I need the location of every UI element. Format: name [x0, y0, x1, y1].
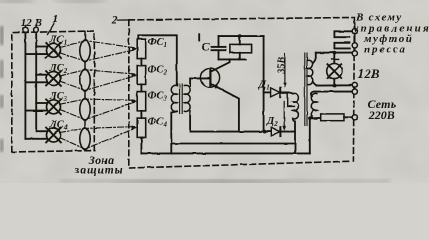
diode D2 — [271, 127, 280, 136]
svg-text:12 В: 12 В — [21, 17, 42, 29]
terminal 12V a — [352, 82, 357, 87]
transformer T2 core — [305, 53, 307, 126]
wire 12V bottom — [317, 84, 353, 86]
wire bus2 — [35, 33, 37, 132]
svg-text:35В: 35В — [277, 57, 288, 75]
svg-text:1: 1 — [52, 11, 58, 25]
terminal strip link — [354, 23, 356, 50]
wire FS1-FS2 — [140, 59, 142, 66]
svg-text:защиты: защиты — [74, 164, 124, 176]
svg-text:пресса: пресса — [364, 43, 407, 55]
node 12V bottom — [332, 84, 336, 88]
wire 12V top — [316, 52, 352, 54]
wire tank top — [219, 35, 264, 37]
wire 35V top lead — [288, 92, 293, 93]
capacitor C — [199, 34, 225, 59]
wire 220V top lead — [311, 92, 352, 97]
wire bottom bus C — [141, 152, 309, 154]
wire R1 bottom stub — [239, 53, 241, 60]
lens column line — [84, 32, 86, 151]
terminal 12V left b — [34, 27, 39, 32]
wire 35V bottom down — [293, 119, 295, 154]
wire bus B — [171, 143, 295, 145]
svg-text:12В: 12В — [358, 67, 380, 81]
transformer T1 secondary — [184, 85, 190, 111]
lamp pilot 12V — [327, 53, 342, 86]
wire 220V winding bottom — [311, 116, 321, 118]
lens 4 — [80, 127, 91, 150]
wire T1 secondary top to base — [190, 78, 210, 85]
terminal 12V left a — [23, 27, 28, 32]
transformer T1 primary — [171, 85, 177, 111]
lamp LS1 — [25, 43, 61, 58]
wire FS4 to bottom bus — [140, 137, 142, 153]
resistor R1 — [230, 44, 252, 52]
lamp LS2 — [25, 71, 61, 86]
wire 35V center tap — [288, 92, 294, 106]
wire 12V winding top lead — [313, 53, 316, 64]
arrow 35V upper — [283, 54, 287, 88]
wire bus A — [190, 131, 295, 133]
lens 2 — [80, 69, 91, 92]
scan smudges — [0, 0, 390, 185]
terminal out 1 — [352, 29, 357, 34]
label 2 pointer — [118, 19, 132, 21]
wire tank bottom — [219, 58, 246, 60]
terminal 220V a — [352, 89, 357, 94]
node 12V top — [332, 51, 336, 55]
photoresistor FS1 — [137, 39, 146, 58]
terminal 220V b — [352, 115, 357, 120]
photoresistor FS3 — [137, 92, 146, 111]
lens 1 — [80, 40, 91, 63]
wire R1 top stub — [239, 36, 241, 44]
connector hook 1 — [334, 31, 352, 37]
transformer T2 primary 220V — [311, 93, 317, 119]
wire T1 primary bottom — [171, 111, 177, 153]
svg-text:2: 2 — [111, 14, 118, 26]
light rays channel 3 — [60, 99, 135, 120]
wire 12V winding bottom lead — [313, 82, 319, 86]
svg-text:220В: 220В — [368, 108, 395, 122]
resistor R220 — [321, 114, 344, 121]
transformer T2 winding 12V — [308, 60, 313, 84]
lamp LS3 — [25, 99, 61, 114]
box 1 protection-zone dashed enclosure — [12, 31, 95, 152]
node tank top — [238, 34, 242, 38]
light rays channel 4 — [60, 127, 135, 149]
wire T1 secondary bottom — [189, 111, 191, 131]
photoresistor FS2 — [137, 66, 146, 85]
box 2 dashed enclosure — [129, 18, 355, 169]
wire right vertical to D1 — [263, 36, 265, 132]
light rays channel 1 — [60, 41, 135, 62]
ray arrow FS3 — [132, 99, 138, 103]
diode D1 — [264, 88, 288, 97]
photoresistor FS4 — [137, 118, 146, 137]
terminal out 2 — [352, 43, 357, 48]
ray arrow FS1 — [132, 47, 138, 51]
lens 3 — [80, 98, 91, 121]
label 1 pointer — [48, 24, 55, 35]
transformer T1 core — [180, 84, 183, 114]
ray arrow FS2 — [132, 73, 138, 77]
connector hook 2 — [334, 43, 349, 49]
node bus A D2 — [263, 130, 267, 134]
arrow 35V lower — [282, 102, 286, 131]
wire C bus riser — [309, 118, 311, 153]
paper background — [0, 0, 429, 183]
wire R220 right — [344, 116, 352, 118]
lamp LS4 — [25, 128, 61, 143]
wire FS2-FS3 — [140, 84, 142, 91]
transformer T2 secondary 35V — [293, 93, 299, 119]
light rays channel 2 — [60, 70, 135, 91]
terminal out 3 — [352, 51, 357, 56]
terminal stems — [25, 25, 36, 27]
node riser — [308, 117, 311, 120]
wire FS3-FS4 — [140, 111, 142, 118]
svg-text:С: С — [202, 40, 211, 54]
ray arrow FS4 — [132, 125, 138, 129]
wire FS chain top to transformer — [138, 35, 177, 85]
wire bus1 — [24, 33, 26, 139]
transistor V1 — [200, 59, 239, 131]
